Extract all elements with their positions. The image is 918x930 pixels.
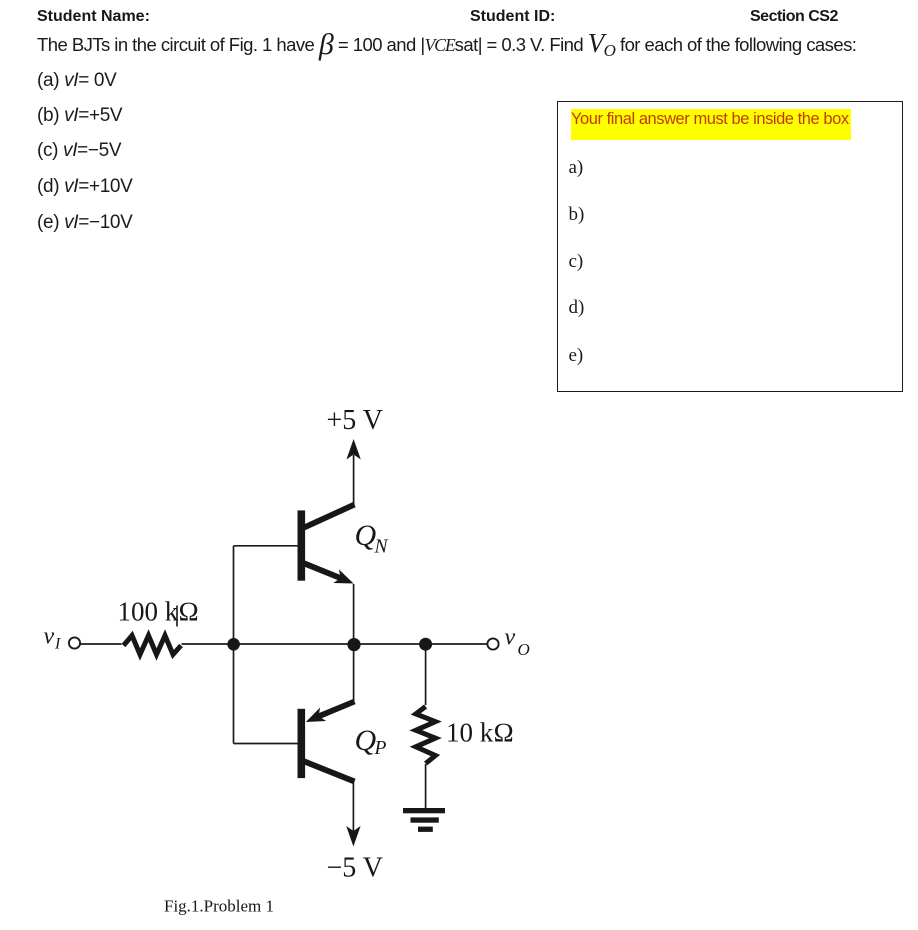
wire QN base stub [234,545,299,547]
transistor QN (npn) [298,505,357,591]
node dot base [227,638,240,651]
+5V supply arrow [346,439,360,460]
QP emitter arrowhead [303,708,326,729]
svg-text:Q: Q [355,519,377,552]
wire QP collector to -5V arrow [352,780,354,831]
QN emitter diagonal [302,563,341,579]
svg-text:Q: Q [355,724,377,757]
svg-text:P: P [374,738,387,759]
svg-text:O: O [518,640,530,659]
QP collector diagonal [302,761,355,782]
svg-text:+5 V: +5 V [327,405,384,436]
transistor QP (pnp) [298,702,355,782]
QN emitter arrowhead [333,569,356,590]
node dot output [347,638,360,651]
terminal vI [69,637,80,648]
svg-text:I: I [54,636,61,653]
svg-text:N: N [374,537,389,558]
QN base bar [298,510,306,580]
wire base vertical [233,546,235,744]
svg-text:v: v [44,624,55,650]
answer slots [569,157,584,179]
cursor bar artifact in label [176,606,178,627]
resistor R1 100 kOhm [124,636,182,655]
wire vI terminal to resistor [81,643,122,645]
svg-text:v: v [505,625,516,651]
svg-text:−5 V: −5 V [327,853,384,884]
wire QN emitter to output node [353,584,355,645]
svg-text:100 kΩ: 100 kΩ [118,597,200,627]
wire output node to 10k resistor [425,644,427,705]
-5V supply arrow [346,826,360,847]
wire QP base stub [234,743,299,745]
resistor R2 10 kOhm [416,707,436,764]
svg-text:Fig.1.Problem 1: Fig.1.Problem 1 [164,897,274,916]
node dot resistor tap [419,638,432,651]
QN collector diagonal [302,505,355,529]
svg-text:10 kΩ: 10 kΩ [446,718,514,748]
answer box [557,101,903,392]
wire output node to QP emitter [353,645,355,702]
case list [37,70,116,92]
ground [403,808,445,832]
problem statement [37,34,856,56]
yellow highlight note [571,109,851,140]
wire QN collector to +5V arrow [353,455,355,506]
wire resistor to vO terminal [182,643,488,645]
QP base bar [298,709,306,778]
terminal vO [487,638,498,649]
header row [37,8,150,26]
wire 10k resistor to ground [425,764,427,809]
QP emitter diagonal [318,702,355,717]
